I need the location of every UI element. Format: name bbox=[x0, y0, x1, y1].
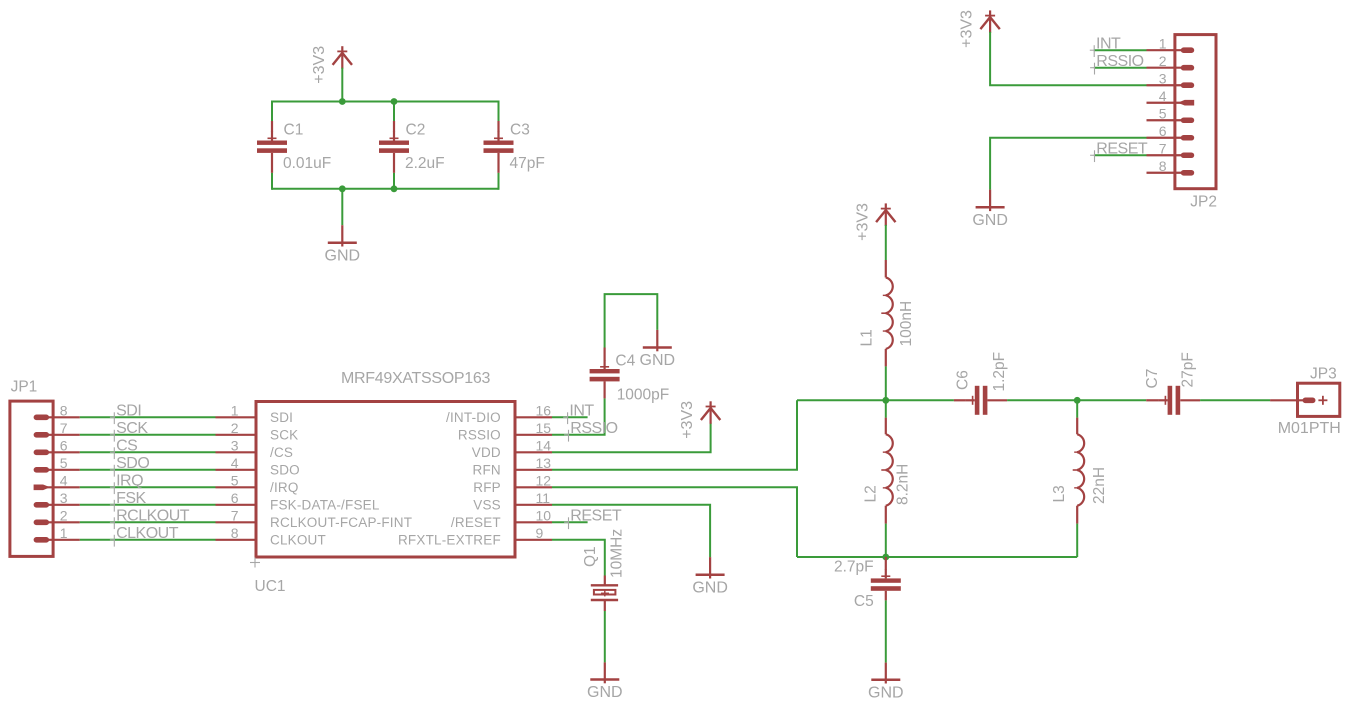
wire GND to pin6 bbox=[990, 138, 1146, 190]
ground bbox=[325, 225, 361, 264]
inductor L3 bbox=[1073, 418, 1084, 524]
pin 15 RSSIO bbox=[458, 420, 552, 442]
capacitor C5 bbox=[871, 557, 901, 600]
svg-text:15: 15 bbox=[536, 420, 552, 436]
svg-text:2: 2 bbox=[60, 508, 68, 524]
svg-text:RSSIO: RSSIO bbox=[458, 427, 501, 442]
pin 1 SDI bbox=[216, 403, 294, 425]
ground bbox=[640, 330, 676, 369]
connector JP2 bbox=[1175, 35, 1216, 189]
op-amp U1 body (IC UC1 MRF49XA) bbox=[256, 402, 515, 558]
junction bbox=[1074, 397, 1081, 404]
svg-text:1.2pF: 1.2pF bbox=[991, 352, 1008, 392]
svg-text:8.2nH: 8.2nH bbox=[894, 464, 911, 505]
wire CLKOUT bbox=[80, 539, 216, 541]
capacitor C3 bbox=[484, 121, 514, 173]
wire VSS bbox=[552, 505, 710, 557]
wire C3 top bbox=[498, 101, 500, 122]
svg-text:2: 2 bbox=[231, 420, 239, 436]
net label SCK bbox=[110, 420, 148, 441]
wire RSSIO to C4 bbox=[552, 398, 605, 434]
pin 7 RCLKOUT-FCAP-FINT bbox=[216, 508, 413, 530]
wire C3 bottom bbox=[498, 173, 500, 190]
svg-text:C7: C7 bbox=[1144, 369, 1161, 389]
capacitor C7 bbox=[1146, 386, 1200, 415]
svg-text:10MHz: 10MHz bbox=[609, 529, 626, 578]
wire VDD bbox=[552, 423, 711, 453]
svg-text:RFXTL-EXTREF: RFXTL-EXTREF bbox=[398, 532, 501, 547]
svg-text:/INT-DIO: /INT-DIO bbox=[446, 410, 501, 425]
pin 6 JP2 bbox=[1147, 123, 1195, 141]
pin 4 SDO bbox=[216, 455, 300, 477]
pin 16 /INT-DIO bbox=[446, 403, 552, 425]
svg-text:2: 2 bbox=[1159, 53, 1167, 69]
net label RSSIO bbox=[564, 420, 618, 441]
svg-text:1: 1 bbox=[231, 403, 239, 419]
svg-text:10: 10 bbox=[536, 508, 552, 524]
junction bbox=[339, 185, 346, 192]
wire XTAL bbox=[552, 540, 605, 576]
wire IRQ bbox=[80, 486, 216, 488]
svg-text:6: 6 bbox=[60, 438, 68, 454]
svg-text:Q1: Q1 bbox=[582, 546, 599, 567]
junction bbox=[882, 554, 889, 561]
wire RESET stub bbox=[552, 521, 588, 523]
wire RF bus mid bbox=[1007, 399, 1146, 401]
net label RESET bbox=[1090, 141, 1148, 162]
svg-text:L3: L3 bbox=[1051, 485, 1068, 502]
origin cross bbox=[250, 558, 260, 568]
pin 2 JP2 bbox=[1147, 53, 1195, 71]
wire +3V3 stem bbox=[341, 68, 343, 102]
svg-text:/CS: /CS bbox=[270, 445, 293, 460]
pin 2 SCK bbox=[216, 420, 299, 442]
svg-text:1000pF: 1000pF bbox=[617, 387, 670, 404]
ground bbox=[868, 663, 904, 702]
wire RF bus left bbox=[797, 399, 954, 401]
net label CLKOUT bbox=[110, 525, 179, 546]
svg-text:M01PTH: M01PTH bbox=[1278, 420, 1341, 437]
pin 2 JP1 bbox=[34, 508, 80, 526]
svg-text:CLKOUT: CLKOUT bbox=[270, 532, 326, 547]
svg-text:+3V3: +3V3 bbox=[679, 401, 696, 439]
svg-text:RSSIO: RSSIO bbox=[570, 420, 617, 437]
svg-text:2.2uF: 2.2uF bbox=[405, 155, 445, 172]
svg-text:SCK: SCK bbox=[116, 420, 148, 437]
svg-text:RCLKOUT-FCAP-FINT: RCLKOUT-FCAP-FINT bbox=[270, 515, 412, 530]
pin 4 JP1 bbox=[34, 473, 80, 491]
inductor L1 bbox=[881, 260, 892, 366]
net label RESET bbox=[564, 508, 622, 529]
pin 9 RFXTL-EXTREF bbox=[398, 525, 552, 547]
svg-text:6: 6 bbox=[231, 490, 239, 506]
pin 1 JP1 bbox=[34, 525, 80, 543]
wire INT stub bbox=[552, 416, 588, 418]
svg-text:SCK: SCK bbox=[270, 427, 298, 442]
svg-text:GND: GND bbox=[325, 247, 361, 264]
svg-text:CS: CS bbox=[116, 438, 137, 455]
svg-text:4: 4 bbox=[1159, 88, 1167, 104]
svg-text:FSK-DATA-/FSEL: FSK-DATA-/FSEL bbox=[270, 497, 380, 512]
wire C4 top bbox=[605, 294, 658, 347]
svg-text:GND: GND bbox=[587, 684, 623, 701]
wire +3V3 to pin3 bbox=[990, 32, 1146, 85]
svg-text:9: 9 bbox=[536, 525, 544, 541]
pin 13 RFN bbox=[473, 455, 552, 477]
svg-text:MRF49XATSSOP163: MRF49XATSSOP163 bbox=[341, 370, 490, 387]
pin 14 VDD bbox=[472, 438, 552, 460]
svg-text:12: 12 bbox=[536, 473, 552, 489]
svg-text:8: 8 bbox=[60, 403, 68, 419]
wire bottom bus bbox=[797, 556, 1077, 558]
svg-text:14: 14 bbox=[536, 438, 552, 454]
wire RFP bbox=[552, 487, 797, 557]
net label IRQ bbox=[110, 473, 143, 494]
pin 12 RFP bbox=[473, 473, 552, 495]
capacitor C4 bbox=[590, 348, 620, 399]
svg-text:1: 1 bbox=[1159, 35, 1167, 51]
pin 3 JP1 bbox=[34, 490, 80, 508]
pin 8 JP1 bbox=[34, 403, 80, 421]
wire bus to L3 bbox=[1076, 400, 1078, 417]
wire C7 to JP3 bbox=[1200, 399, 1270, 401]
connector JP3 bbox=[1270, 383, 1340, 416]
svg-text:1: 1 bbox=[60, 525, 68, 541]
svg-text:SDI: SDI bbox=[116, 403, 141, 420]
wire C5 to GND bbox=[885, 600, 887, 662]
svg-text:GND: GND bbox=[972, 212, 1008, 229]
ground bbox=[972, 190, 1008, 229]
svg-text:27pF: 27pF bbox=[1180, 352, 1197, 387]
junction bbox=[391, 185, 398, 192]
svg-text:11: 11 bbox=[536, 490, 551, 506]
svg-text:16: 16 bbox=[536, 403, 552, 419]
wire SDO bbox=[80, 469, 216, 471]
svg-text:5: 5 bbox=[1159, 105, 1167, 121]
svg-text:GND: GND bbox=[692, 579, 728, 596]
pin 8 JP2 bbox=[1147, 158, 1195, 176]
net label RSSIO bbox=[1090, 53, 1144, 74]
svg-text:22nH: 22nH bbox=[1091, 467, 1108, 504]
svg-text:13: 13 bbox=[536, 455, 552, 471]
pin 5 /IRQ bbox=[216, 473, 299, 495]
wire INT bbox=[1094, 49, 1147, 51]
svg-text:+3V3: +3V3 bbox=[959, 10, 976, 48]
inductor L2 bbox=[881, 418, 892, 524]
pin 6 JP1 bbox=[34, 438, 80, 456]
svg-text:7: 7 bbox=[231, 508, 239, 524]
svg-text:C6: C6 bbox=[954, 370, 971, 390]
svg-text:VDD: VDD bbox=[472, 445, 501, 460]
svg-text:100nH: 100nH bbox=[898, 301, 915, 347]
svg-text:RESET: RESET bbox=[1096, 141, 1148, 158]
wire bottom bus bbox=[272, 188, 499, 190]
svg-text:SDO: SDO bbox=[270, 462, 300, 477]
wire RFN bbox=[552, 400, 797, 470]
svg-text:6: 6 bbox=[1159, 123, 1167, 139]
wire GND stem bbox=[341, 189, 343, 225]
svg-text:GND: GND bbox=[640, 352, 676, 369]
svg-text:INT: INT bbox=[569, 403, 594, 420]
junction bbox=[882, 397, 889, 404]
svg-text:L1: L1 bbox=[859, 329, 876, 346]
svg-text:INT: INT bbox=[1096, 36, 1121, 53]
pin 5 JP2 bbox=[1147, 105, 1195, 123]
net label SDI bbox=[110, 403, 141, 424]
junction bbox=[391, 98, 398, 105]
wire FSK bbox=[80, 504, 216, 506]
svg-text:CLKOUT: CLKOUT bbox=[116, 525, 179, 542]
net label INT bbox=[563, 403, 594, 424]
wire RCLKOUT bbox=[80, 521, 216, 523]
svg-text:2.7pF: 2.7pF bbox=[834, 559, 874, 576]
svg-text:47pF: 47pF bbox=[510, 155, 545, 172]
ground bbox=[692, 557, 728, 596]
svg-text:5: 5 bbox=[60, 455, 68, 471]
net label INT bbox=[1090, 36, 1121, 57]
svg-text:RSSIO: RSSIO bbox=[1096, 53, 1143, 70]
svg-text:+3V3: +3V3 bbox=[854, 203, 871, 241]
wire bus to L2 bbox=[885, 400, 887, 417]
svg-text:JP2: JP2 bbox=[1190, 194, 1217, 211]
wire CS bbox=[80, 451, 216, 453]
svg-text:JP3: JP3 bbox=[1310, 366, 1337, 383]
svg-text:SDI: SDI bbox=[270, 410, 293, 425]
svg-text:UC1: UC1 bbox=[255, 578, 286, 595]
junction bbox=[339, 98, 346, 105]
svg-text:IRQ: IRQ bbox=[116, 473, 143, 490]
svg-text:+3V3: +3V3 bbox=[311, 46, 328, 84]
wire RESET bbox=[1094, 154, 1147, 156]
svg-text:RFN: RFN bbox=[473, 462, 501, 477]
wire L1 to bus bbox=[885, 366, 887, 400]
net label FSK bbox=[110, 490, 147, 511]
connector JP1 bbox=[10, 401, 53, 556]
pin 8 CLKOUT bbox=[216, 525, 326, 547]
capacitor C1 bbox=[257, 121, 287, 173]
svg-text:4: 4 bbox=[231, 455, 239, 471]
wire SCK bbox=[80, 434, 216, 436]
svg-text:RCLKOUT: RCLKOUT bbox=[116, 508, 190, 525]
pin 6 FSK-DATA-/FSEL bbox=[216, 490, 380, 512]
svg-text:/RESET: /RESET bbox=[451, 515, 501, 530]
pin 5 JP1 bbox=[34, 455, 80, 473]
svg-text:VSS: VSS bbox=[473, 497, 501, 512]
svg-text:4: 4 bbox=[60, 473, 68, 489]
pin 4 JP2 bbox=[1147, 88, 1195, 106]
power +3V3 bbox=[959, 10, 1000, 48]
pin 10 /RESET bbox=[451, 508, 552, 530]
pin 3 JP2 bbox=[1147, 70, 1195, 88]
svg-text:C5: C5 bbox=[854, 593, 874, 610]
svg-text:JP1: JP1 bbox=[11, 379, 38, 396]
svg-text:FSK: FSK bbox=[116, 490, 146, 507]
svg-text:8: 8 bbox=[1159, 158, 1167, 174]
power +3V3 bbox=[311, 46, 352, 84]
wire C1 bottom bbox=[271, 173, 273, 190]
svg-text:C4: C4 bbox=[615, 353, 635, 370]
capacitor C6 bbox=[954, 386, 1007, 415]
pin 7 JP1 bbox=[34, 420, 80, 438]
svg-text:L2: L2 bbox=[862, 485, 879, 502]
svg-text:7: 7 bbox=[60, 420, 68, 436]
svg-text:C1: C1 bbox=[284, 122, 304, 139]
capacitor C2 bbox=[379, 121, 409, 173]
svg-text:7: 7 bbox=[1159, 140, 1167, 156]
power +3V3 bbox=[679, 401, 720, 439]
svg-text:/IRQ: /IRQ bbox=[270, 480, 299, 495]
wire L3 to bottom bus bbox=[1076, 524, 1078, 557]
svg-text:C2: C2 bbox=[406, 122, 426, 139]
pin 11 VSS bbox=[473, 490, 552, 512]
wire C2 top bbox=[393, 102, 395, 122]
pin 7 JP2 bbox=[1147, 140, 1195, 158]
wire +3V3 to L1 bbox=[885, 225, 887, 260]
pin 3 /CS bbox=[216, 438, 294, 460]
svg-text:SDO: SDO bbox=[116, 455, 149, 472]
net label SDO bbox=[110, 455, 149, 476]
svg-text:3: 3 bbox=[1159, 70, 1167, 86]
wire top bus VCC bbox=[272, 101, 499, 103]
svg-text:RFP: RFP bbox=[473, 480, 501, 495]
svg-text:RESET: RESET bbox=[570, 508, 622, 525]
wire L2 to bottom bus bbox=[885, 524, 887, 557]
svg-text:3: 3 bbox=[231, 438, 239, 454]
net label RCLKOUT bbox=[110, 508, 190, 529]
svg-text:8: 8 bbox=[231, 525, 239, 541]
crystal Q1 bbox=[591, 576, 618, 612]
svg-text:C3: C3 bbox=[510, 122, 530, 139]
wire C2 bottom bbox=[393, 173, 395, 189]
svg-text:GND: GND bbox=[868, 684, 904, 701]
wire RSSIO bbox=[1094, 67, 1147, 69]
power +3V3 bbox=[854, 203, 895, 241]
pin 1 JP2 bbox=[1147, 35, 1195, 53]
net label CS bbox=[110, 438, 137, 459]
svg-text:0.01uF: 0.01uF bbox=[283, 155, 331, 172]
svg-text:5: 5 bbox=[231, 473, 239, 489]
svg-text:3: 3 bbox=[60, 490, 68, 506]
wire Q1 to GND bbox=[604, 611, 606, 662]
ground bbox=[587, 662, 623, 701]
wire C1 top bbox=[271, 101, 273, 122]
wire SDI bbox=[80, 416, 216, 418]
